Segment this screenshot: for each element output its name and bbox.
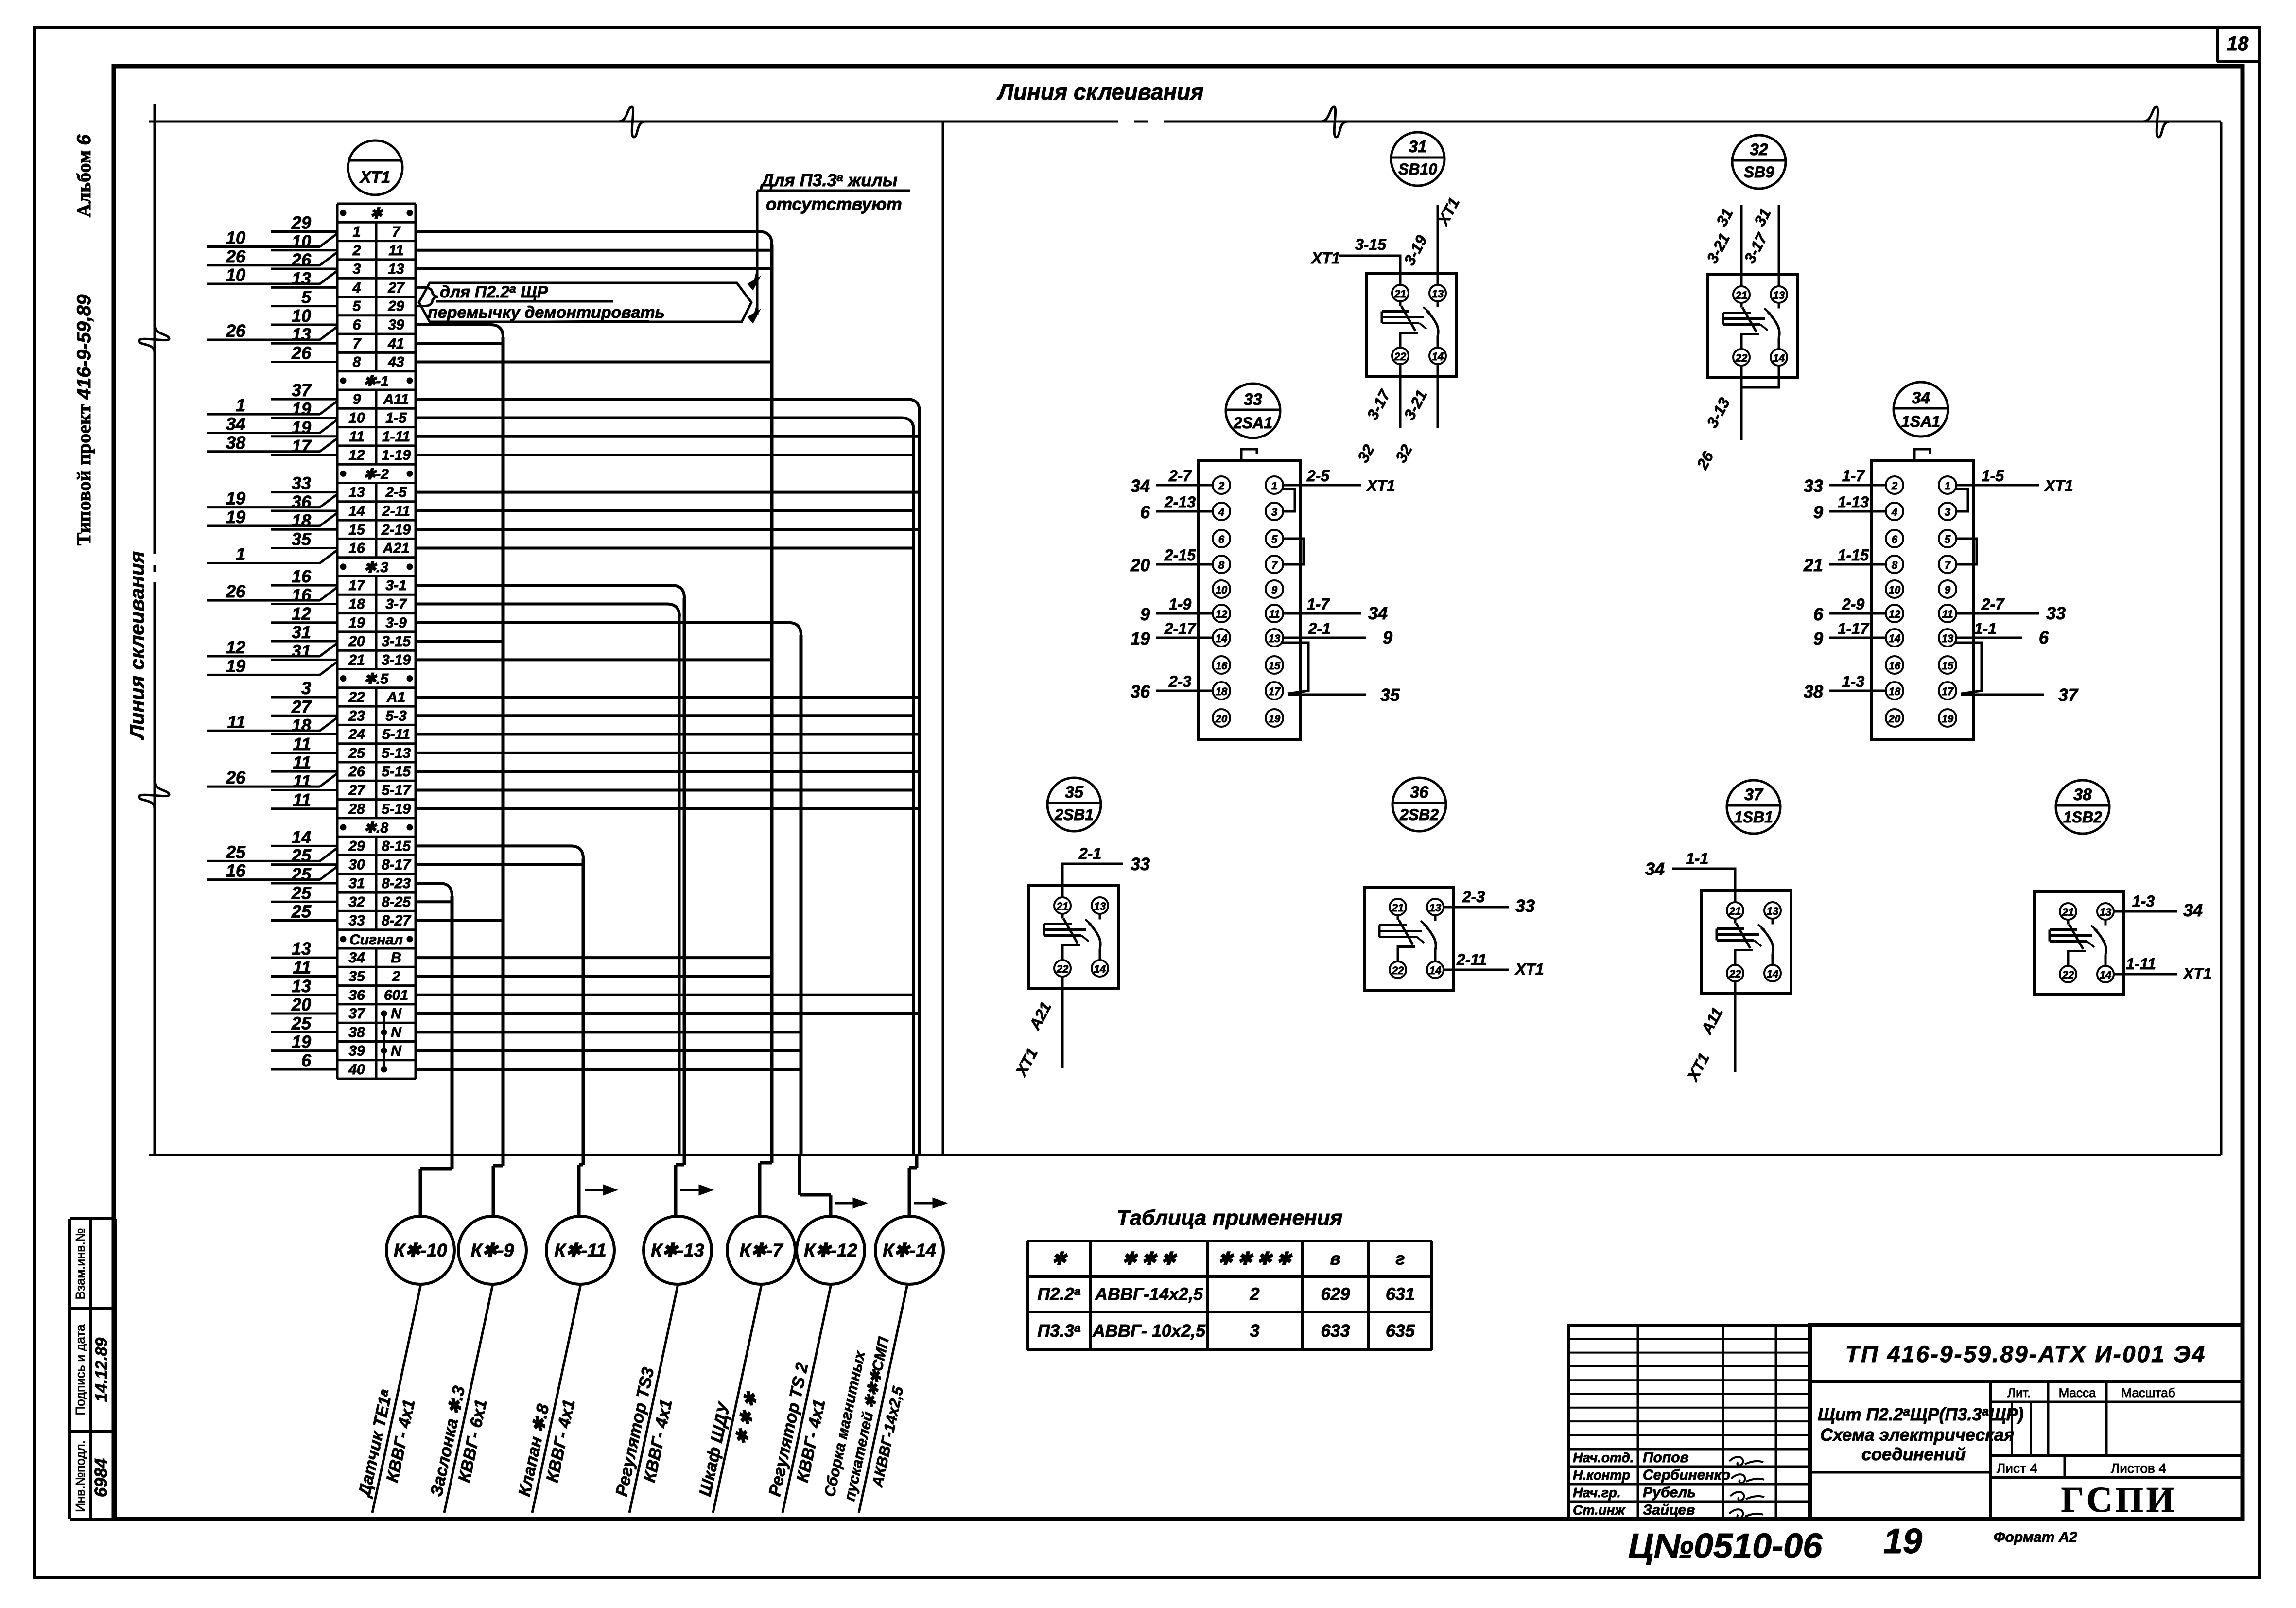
push-button SB10 [1367,132,1456,376]
svg-text:1-5: 1-5 [1982,467,2004,485]
svg-text:2-1: 2-1 [1308,620,1331,637]
svg-text:3-9: 3-9 [385,615,407,631]
push-button 1SB1 [1702,780,1791,994]
svg-text:6: 6 [2039,628,2049,647]
svg-text:22: 22 [1394,350,1407,363]
svg-text:37: 37 [292,380,312,400]
svg-text:22: 22 [2062,969,2074,981]
cable direction arrow К*-12 [835,1199,865,1207]
svg-text:25: 25 [291,902,312,922]
svg-text:12: 12 [226,637,245,657]
svg-text:13: 13 [388,261,404,277]
svg-text:А1: А1 [386,689,405,705]
svg-text:37: 37 [2058,685,2079,705]
svg-text:ТП 416-9-59.89-АТХ И-001 Э4: ТП 416-9-59.89-АТХ И-001 Э4 [1845,1342,2207,1367]
svg-text:3-17: 3-17 [1740,229,1771,266]
svg-text:1: 1 [236,395,245,415]
device label Регулятор ТS2 / КВВГ-4х1 [762,1281,852,1518]
svg-text:SB10: SB10 [1398,160,1437,178]
svg-text:8-25: 8-25 [382,894,411,910]
svg-text:14: 14 [1094,963,1106,975]
svg-text:13: 13 [1429,902,1441,914]
svg-text:16: 16 [1889,660,1901,672]
glue line vertical break 2 [139,781,169,808]
svg-text:11: 11 [293,790,311,810]
svg-text:6984: 6984 [91,1458,111,1497]
svg-text:37: 37 [348,1006,365,1022]
1SA1 jumper pins 13-17 [1955,643,1982,694]
cable to К*-14 [909,1155,917,1216]
cable to К*-13 [676,1155,684,1216]
glue line vertical break 1 [139,325,169,352]
svg-text:5: 5 [301,287,312,307]
svg-text:33: 33 [2046,603,2066,623]
svg-text:1-17: 1-17 [1838,620,1870,637]
wire row 5 stub [416,305,424,307]
svg-text:г: г [1395,1249,1405,1269]
svg-text:18: 18 [1216,685,1228,698]
svg-text:633: 633 [1321,1321,1350,1341]
svg-text:ХТ1: ХТ1 [1514,961,1544,978]
svg-text:31: 31 [292,641,311,661]
glue line break 1 [618,107,645,137]
2SA1 right pin labels [1283,467,1400,705]
svg-text:11: 11 [1269,608,1280,620]
svg-text:25: 25 [226,842,246,862]
svg-text:8: 8 [353,354,361,370]
svg-text:25: 25 [291,883,312,903]
svg-text:29: 29 [348,838,365,854]
svg-text:Формат А2: Формат А2 [1994,1529,2077,1545]
svg-text:3: 3 [1250,1321,1259,1341]
svg-text:1-1: 1-1 [1974,620,1997,637]
svg-text:Рубель: Рубель [1643,1485,1696,1501]
svg-text:25: 25 [291,846,312,866]
svg-text:8-15: 8-15 [382,838,411,854]
svg-text:Листов 4: Листов 4 [2111,1461,2166,1476]
svg-text:34: 34 [348,950,365,966]
svg-text:11: 11 [1942,608,1953,620]
cable circle К✱-12 [797,1216,865,1284]
svg-text:13: 13 [1269,632,1280,645]
svg-text:27: 27 [348,782,365,798]
cable to К*-10 [420,1155,452,1216]
svg-text:перемычку демонтировать: перемычку демонтировать [428,303,665,322]
svg-text:3-13: 3-13 [1703,395,1733,431]
svg-text:5-15: 5-15 [382,764,411,780]
terminal block XT1 table [337,204,416,1079]
wire bundle to К*-12 (rows 19,38,39,40) [416,623,801,1155]
svg-text:Линия склеивания: Линия склеивания [125,551,148,740]
svg-text:3-17: 3-17 [1363,386,1394,422]
svg-text:10: 10 [226,227,245,247]
drawing region bottom line [149,1154,2221,1156]
SB10 wire 3-21 from pin 14 [1437,364,1439,428]
svg-text:19: 19 [226,507,245,527]
push-button SB9 [1708,135,1797,378]
1SA1 jumper pins 1-3 [1955,489,1968,511]
svg-text:20: 20 [348,633,365,649]
title block signature grid [1568,1325,1810,1519]
svg-text:Альбом 6: Альбом 6 [73,134,95,217]
svg-text:18: 18 [1889,685,1901,698]
svg-text:✱: ✱ [370,206,383,222]
device label Сборка магнитных пускателей СМП / АКВВГ-14х2,5 [819,1277,928,1517]
svg-text:19: 19 [1269,713,1281,725]
svg-text:17: 17 [348,577,365,594]
svg-text:1-3: 1-3 [1842,673,1864,690]
SB9 wire 3-21 to pin 21 [1740,205,1743,286]
svg-text:Датчик ТЕ1а: Датчик ТЕ1а [354,1388,396,1500]
svg-text:29: 29 [291,212,311,232]
svg-text:38: 38 [1804,682,1823,701]
SB10 wire ХТ1/3-15 to pin 21 [1339,256,1400,285]
svg-text:ГСПИ: ГСПИ [2061,1480,2177,1520]
XT1 N-jumper dots [381,1011,387,1072]
svg-text:9: 9 [1271,584,1278,596]
svg-text:20: 20 [1130,555,1150,575]
svg-text:8-27: 8-27 [382,913,411,929]
svg-text:6: 6 [1813,604,1824,624]
cable to К*-11 [579,1155,583,1216]
svg-text:2: 2 [1218,480,1225,492]
svg-text:19: 19 [292,399,311,419]
svg-text:А21: А21 [382,541,409,557]
svg-text:5: 5 [1271,533,1278,545]
svg-text:ХТ1: ХТ1 [1311,249,1340,267]
svg-text:Взам.инв.№: Взам.инв.№ [73,1228,87,1300]
svg-text:3-1: 3-1 [385,577,406,594]
svg-text:АВВГ-14х2,5: АВВГ-14х2,5 [1095,1284,1203,1304]
svg-text:8-17: 8-17 [382,857,411,873]
svg-text:К✱-7: К✱-7 [740,1241,784,1261]
svg-text:3: 3 [1945,506,1950,518]
svg-text:ХТ1: ХТ1 [1366,477,1395,494]
svg-text:36: 36 [292,492,312,512]
svg-text:6: 6 [353,317,361,333]
1SA1 left pin labels [1803,467,1886,701]
svg-text:5-19: 5-19 [382,801,411,817]
svg-text:19: 19 [226,489,245,508]
svg-text:35: 35 [348,968,365,984]
application table grid [1027,1241,1432,1350]
svg-text:Схема электрическая: Схема электрическая [1820,1425,2014,1445]
svg-text:А11: А11 [1698,1005,1726,1038]
svg-text:18: 18 [2227,33,2249,54]
svg-text:3-7: 3-7 [385,596,407,612]
svg-text:5: 5 [1945,533,1951,545]
svg-text:26: 26 [226,768,246,787]
svg-text:10: 10 [226,265,245,285]
svg-text:Инв.№подл.: Инв.№подл. [73,1440,87,1512]
svg-text:13: 13 [292,939,311,959]
svg-text:1-9: 1-9 [1169,595,1191,613]
svg-text:Попов: Попов [1643,1450,1689,1466]
svg-text:26: 26 [291,343,312,363]
svg-text:1-1: 1-1 [1686,850,1708,867]
svg-text:10: 10 [292,306,311,326]
svg-text:18: 18 [292,716,311,735]
svg-text:Подпись и дата: Подпись и дата [73,1324,87,1416]
svg-text:для П2.2а ЩР: для П2.2а ЩР [440,282,548,301]
svg-text:38: 38 [2073,786,2092,804]
svg-text:2-11: 2-11 [1456,951,1487,968]
svg-text:20: 20 [1215,713,1228,725]
1SA1 right pin labels [1956,467,2079,705]
svg-text:1-5: 1-5 [385,410,407,426]
svg-text:3: 3 [1271,506,1277,518]
cable circle К✱-14 [875,1216,943,1284]
svg-text:4: 4 [1218,506,1224,518]
2SA1 jumper pins 1-3 [1282,489,1295,511]
svg-text:3-21: 3-21 [1400,387,1430,422]
svg-text:14: 14 [1773,352,1785,364]
svg-text:2-5: 2-5 [385,485,407,501]
title block main frame [1810,1325,2243,1519]
svg-text:10: 10 [292,231,311,251]
svg-text:К✱-11: К✱-11 [554,1241,606,1261]
2SA1 jumper pins 5-7 [1283,539,1304,564]
selector switch 1SA1 [1872,382,1974,739]
svg-text:SB9: SB9 [1744,163,1774,181]
svg-text:9: 9 [1813,502,1823,522]
svg-text:13: 13 [292,268,311,288]
svg-text:отсутствуют: отсутствуют [766,194,902,214]
svg-text:11: 11 [293,957,311,977]
svg-text:17: 17 [1269,685,1281,698]
SB10 wire 3-19 from pin 13 [1437,205,1439,285]
svg-text:7: 7 [353,335,362,351]
svg-text:ХТ1: ХТ1 [1012,1045,1041,1079]
svg-text:Таблица применения: Таблица применения [1117,1206,1343,1230]
svg-text:1-15: 1-15 [1838,546,1869,564]
svg-text:ХТ1: ХТ1 [2044,477,2073,494]
2SA1 jumper pins 13-17 [1282,643,1308,694]
svg-text:33: 33 [1515,896,1535,916]
svg-text:2-3: 2-3 [1168,673,1191,690]
svg-text:20: 20 [1888,713,1901,725]
svg-text:13: 13 [1942,632,1953,645]
svg-text:32: 32 [348,894,365,910]
svg-text:32: 32 [1354,441,1378,465]
svg-text:1-11: 1-11 [2126,955,2156,973]
svg-text:16: 16 [292,585,312,605]
svg-text:К✱-12: К✱-12 [804,1241,857,1261]
svg-text:Типовой проект 416-9-59,89: Типовой проект 416-9-59,89 [73,294,95,545]
svg-text:П3.3а: П3.3а [1037,1321,1080,1341]
title block right grid [1990,1381,2243,1478]
svg-text:13: 13 [292,324,311,344]
svg-text:35: 35 [1380,685,1400,705]
svg-text:1-19: 1-19 [382,447,411,463]
device label Датчик ТЕ1а / КВВГ-4х1 [351,1281,442,1517]
1SB2 wire 1-3 from pin 13 [2114,910,2177,913]
wire bundle to К*-14 (rows 9-16,22-28,36,37) [416,399,920,1155]
svg-text:3-19: 3-19 [382,652,411,668]
svg-text:3: 3 [301,678,311,698]
svg-text:11: 11 [349,429,364,445]
svg-text:19: 19 [1883,1522,1922,1561]
svg-text:26: 26 [348,764,365,780]
svg-text:2SB1: 2SB1 [1054,806,1094,823]
svg-text:1SA1: 1SA1 [1901,413,1940,430]
svg-text:2-7: 2-7 [1168,467,1192,485]
svg-text:31: 31 [348,875,365,891]
svg-text:12: 12 [348,447,365,463]
wire bundle to К*-13 (rows 17,18) [416,585,684,1155]
2SB2 wire 2-11 from pin 14 [1444,969,1509,971]
svg-text:П2.2а: П2.2а [1037,1284,1080,1304]
svg-text:3-19: 3-19 [1400,232,1430,268]
svg-text:13: 13 [1767,905,1778,917]
cable circle К✱-11 [546,1216,614,1284]
glue line vertical [154,104,156,1155]
wire bundle to К*-9 (rows 6,7,20,33) [416,325,503,1155]
signature squiggles [1729,1457,1764,1518]
svg-text:13: 13 [348,485,365,501]
2SB1 wire 2-1 from pin 21 [1062,864,1123,897]
svg-text:33: 33 [1131,854,1150,874]
push-button 2SB1 [1029,778,1118,989]
svg-text:10: 10 [1889,584,1901,596]
svg-text:3-15: 3-15 [382,633,411,649]
svg-text:Линия склеивания: Линия склеивания [997,79,1204,105]
svg-text:6: 6 [1892,533,1898,545]
svg-text:631: 631 [1386,1284,1415,1304]
svg-text:✱: ✱ [1052,1249,1068,1269]
svg-text:5-13: 5-13 [382,745,411,761]
title block divider under title [1810,1471,1990,1474]
svg-text:35: 35 [292,529,312,549]
svg-text:6: 6 [1218,533,1225,545]
svg-text:К✱-13: К✱-13 [651,1241,704,1261]
svg-text:22: 22 [1056,963,1069,975]
svg-text:2-7: 2-7 [1981,595,2005,613]
svg-text:25: 25 [291,1013,312,1033]
svg-text:Клапан ✱.8: Клапан ✱.8 [515,1402,553,1498]
svg-text:В: В [391,950,401,966]
svg-text:11: 11 [293,771,311,791]
svg-text:2-9: 2-9 [1842,595,1864,613]
svg-text:15: 15 [348,522,365,538]
svg-text:8-23: 8-23 [382,875,411,891]
svg-text:1-7: 1-7 [1842,467,1865,485]
svg-text:13: 13 [1432,288,1444,300]
svg-text:10: 10 [1216,584,1228,596]
svg-text:N: N [391,1043,402,1059]
2SB2 wire 2-3 from pin 13 [1444,906,1509,909]
device label Шкаф ШДУ / *** [693,1281,783,1518]
svg-text:33: 33 [292,473,311,493]
svg-text:26: 26 [291,250,312,270]
svg-text:5-11: 5-11 [382,727,410,743]
svg-text:26: 26 [1693,448,1717,472]
svg-text:38: 38 [348,1024,365,1040]
svg-text:37: 37 [1744,786,1764,804]
svg-text:К✱-10: К✱-10 [394,1241,447,1261]
svg-text:34: 34 [1645,859,1665,879]
svg-text:15: 15 [1269,660,1281,672]
svg-text:2-13: 2-13 [1164,493,1196,511]
svg-text:Н.контр: Н.контр [1573,1468,1630,1483]
svg-text:27: 27 [387,280,405,296]
svg-text:635: 635 [1386,1321,1415,1341]
svg-text:14: 14 [1889,632,1900,645]
svg-text:1: 1 [1271,480,1277,492]
svg-text:Нач.гр.: Нач.гр. [1573,1485,1621,1500]
svg-text:32: 32 [1750,140,1768,159]
svg-text:40: 40 [348,1062,365,1078]
svg-text:2: 2 [1891,480,1898,492]
svg-text:7: 7 [1271,559,1278,571]
svg-text:19: 19 [226,656,245,676]
svg-text:2: 2 [1249,1284,1259,1304]
svg-text:9: 9 [1813,629,1823,648]
svg-text:6: 6 [301,1050,312,1070]
svg-text:14: 14 [1429,964,1441,977]
svg-text:17: 17 [1942,685,1954,698]
svg-text:13: 13 [292,976,311,996]
svg-text:2-19: 2-19 [381,522,411,538]
SB10 wire 3-17 from pin 22 [1399,364,1402,428]
svg-text:1: 1 [353,224,361,240]
svg-text:24: 24 [348,727,365,743]
svg-text:29: 29 [387,298,404,315]
svg-text:1-7: 1-7 [1307,595,1330,613]
svg-text:39: 39 [348,1043,365,1059]
svg-text:Зайцев: Зайцев [1643,1502,1695,1518]
svg-text:13: 13 [1773,289,1785,301]
svg-text:14: 14 [348,503,365,519]
svg-text:Шкаф ШДУ: Шкаф ШДУ [696,1400,734,1498]
1SB1 wire 1-1 from pin 21 [1672,869,1735,902]
wire bundle to К*-10 (rows 31,32) [416,883,452,1155]
svg-text:38: 38 [226,433,245,453]
harness box right border [942,122,944,1155]
note arrow 2 [754,306,757,317]
left margin stamp table [70,1219,115,1519]
svg-text:Сигнал: Сигнал [349,932,403,948]
svg-text:1SB2: 1SB2 [2063,808,2102,826]
svg-text:N: N [391,1024,402,1040]
balloon XT1 [348,140,402,195]
svg-text:6: 6 [1140,502,1150,522]
1SB2 wire 1-11 from pin 14 [2114,973,2177,976]
cable circle К✱-10 [386,1216,454,1284]
svg-text:34: 34 [226,414,245,434]
note leader П3.3а [756,191,759,315]
svg-text:ХТ1: ХТ1 [2182,965,2212,982]
svg-text:25: 25 [348,745,365,761]
device label Заслонка *.3 / КВВГ-6х1 [424,1281,514,1518]
svg-text:N: N [391,1006,402,1022]
SB9 wire 3-17 to pin 13 [1778,205,1780,286]
svg-text:8: 8 [1892,559,1898,571]
note underline Для П3.3а [757,190,910,192]
svg-text:Для П3.3а жилы: Для П3.3а жилы [760,170,898,190]
glue line horizontal [149,121,2221,123]
svg-text:Лист 4: Лист 4 [1997,1461,2037,1476]
svg-text:4: 4 [1891,506,1897,518]
svg-text:14: 14 [292,827,311,847]
svg-text:К✱-14: К✱-14 [883,1241,936,1261]
svg-text:11: 11 [293,752,311,772]
svg-text:11: 11 [293,734,311,754]
svg-text:2SA1: 2SA1 [1233,414,1272,432]
svg-text:17: 17 [292,436,312,456]
svg-text:7: 7 [392,224,401,240]
svg-text:✱.8: ✱.8 [364,820,388,836]
